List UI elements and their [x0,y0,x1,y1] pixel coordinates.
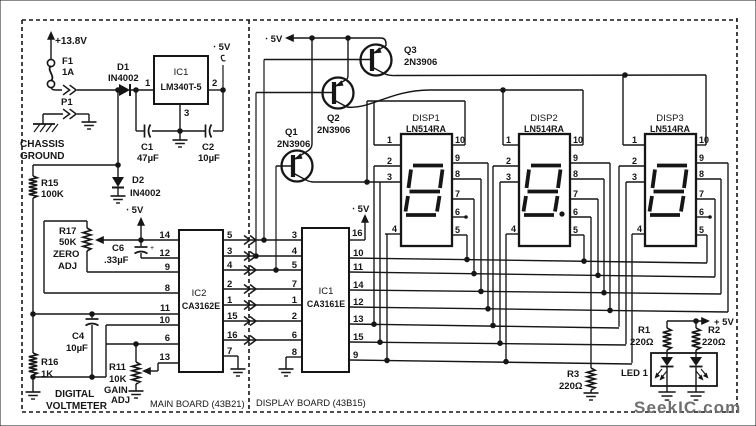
transistor Q3 2N3906 [264,45,437,76]
pin 8 (DISP3) [696,169,721,179]
svg-text:3: 3 [506,172,511,182]
wire (segment column) [618,166,620,327]
svg-text:IC1: IC1 [174,67,189,78]
wire (segment bus d / IC1 pin 12) [349,307,728,313]
pin 14 (IC1) [353,280,364,291]
wire [33,163,120,176]
connector (board link 4→5) [244,266,256,275]
svg-text:R1: R1 [638,325,651,336]
svg-text:6: 6 [165,333,170,344]
pin 15 (IC2) [227,311,238,322]
wire (segment bus f / IC1 pin 15) [349,340,626,346]
svg-text:220Ω: 220Ω [702,337,726,348]
svg-text:3: 3 [184,108,189,119]
pin 4 (DISP3) [632,224,645,234]
svg-text:GROUND: GROUND [20,151,64,162]
LED 1 (indicator pair) [621,353,717,386]
svg-text:2: 2 [506,156,511,166]
svg-text:15: 15 [227,311,238,322]
wire [152,130,205,132]
svg-text:1: 1 [632,135,637,145]
wire (DISP1 anode loop) [367,101,465,182]
display DISP2 LN514RA [519,113,570,246]
wire (IC2 pin 15 to IC1 pin 2) [223,320,302,322]
svg-text:11: 11 [353,262,364,273]
transistor Q2 2N3906 [256,78,354,137]
svg-text:6: 6 [573,207,578,217]
svg-text:1: 1 [227,295,233,306]
svg-text:R2: R2 [708,325,720,336]
transistor Q1 2N3906 [276,127,313,182]
svg-text:7: 7 [573,189,578,199]
wire (DISP3 anode drop) [623,75,706,145]
pin 7 (IC1) [292,279,297,290]
pin 5 (IC2) [227,230,233,241]
svg-text:9: 9 [455,153,460,163]
svg-text:2N3906: 2N3906 [404,57,437,68]
pin 3 (DISP1) [387,172,392,182]
wire (segment column) [706,235,708,263]
svg-text:16: 16 [352,228,363,239]
label DISPLAY BOARD [256,398,366,408]
pin 16 (IC1) [349,204,370,240]
pin 10 (DISP2) [570,135,583,145]
svg-text:C1: C1 [141,142,154,153]
svg-text:LED 1: LED 1 [621,368,649,379]
ground [173,131,188,147]
pin 7 (DISP2) [570,189,598,199]
svg-text:10µF: 10µF [66,343,88,354]
svg-text:LN514RA: LN514RA [650,124,691,134]
node +5V (LED supply) [667,317,734,328]
capacitor C4 10µF [66,314,99,379]
pin 10 (DISP1) [452,135,465,145]
svg-text:10: 10 [573,135,583,145]
resistor R3 220Ω [559,368,595,392]
svg-text:Q2: Q2 [327,113,340,124]
wire [667,366,696,392]
wire [44,221,179,293]
svg-text:ZERO: ZERO [53,249,79,260]
op-amp U1 IC2 CA3162E [179,230,223,372]
wire [142,363,179,375]
board divider (dashed) [248,20,250,412]
wire (Q1 emitter) [306,38,312,152]
regulator IC1 LM340T-5 [154,56,208,104]
svg-text:10: 10 [455,135,465,145]
wire (decimal point feed) [590,217,592,368]
svg-text:9: 9 [573,153,578,163]
svg-text:9: 9 [699,153,704,163]
chassis ground [20,114,65,162]
pin 1 (DISP1) [374,135,401,145]
svg-text:R17: R17 [59,226,76,237]
wire (segment column) [609,163,611,310]
wire (segment column) [492,166,494,326]
svg-text:12: 12 [159,248,170,259]
svg-text:LN514RA: LN514RA [406,124,447,134]
pin 5 (DISP2) [570,225,584,235]
svg-text:D1: D1 [117,62,130,73]
wire (IC2 pin 4 to IC1 pin 5) [223,269,302,271]
pin 4 (IC2) [227,260,233,271]
svg-text:VOLTMETER: VOLTMETER [46,401,108,412]
svg-text:9: 9 [353,350,358,361]
pin 3 (DISP2) [500,172,519,182]
wire (Q3 collector) [385,73,706,78]
svg-text:7: 7 [699,189,704,199]
wire (segment bus b / IC1 pin 11) [349,271,715,277]
ground [584,390,599,400]
svg-text:DISP1: DISP1 [412,113,439,124]
wire [87,251,179,272]
capacitor C6 .33µF [104,240,179,266]
pin 9 (DISP1) [452,153,488,163]
pin 11 (IC1) [353,262,364,273]
display DISP1 LN514RA [401,113,452,246]
svg-text:CA3161E: CA3161E [307,299,345,309]
wire (IC2 pin 3 to IC1 pin 4) [223,255,302,257]
svg-text:12: 12 [353,297,364,308]
svg-text:8: 8 [699,169,704,179]
svg-text:5: 5 [573,225,578,235]
wire (Q2 collector) [347,88,583,108]
connector (board link 1→1) [244,301,256,310]
svg-text:IN4002: IN4002 [108,73,139,84]
svg-text:6: 6 [292,330,297,341]
pin 3 (IC1) [178,104,190,133]
svg-text:4: 4 [227,260,233,271]
svg-text:13: 13 [353,314,364,325]
svg-text:10µF: 10µF [198,153,220,164]
ground [111,196,126,203]
pin 5 (DISP3) [696,225,707,235]
svg-text:D2: D2 [132,175,144,186]
pin 2 (IC1) [208,78,225,92]
potentiometer R11 10K GAIN ADJ [104,344,140,406]
svg-text:‧ 5V: ‧ 5V [352,204,370,215]
svg-text:4: 4 [292,246,298,257]
wire [31,325,179,379]
connector P1 (lower) [43,109,89,122]
pin 9 (DISP3) [696,153,728,163]
svg-text:R3: R3 [567,369,579,380]
svg-text:13: 13 [159,352,170,363]
pin 6 (IC1) [292,330,297,341]
svg-text:DISP3: DISP3 [656,113,683,124]
svg-text:8: 8 [165,283,170,294]
connector P1 (upper) [61,85,76,108]
wire (segment column) [603,179,605,293]
connector (board link 16→6) [244,336,256,345]
svg-text:14: 14 [353,280,364,291]
svg-text:IN4002: IN4002 [130,188,161,199]
svg-text:C6: C6 [112,243,124,254]
svg-text:IC2: IC2 [192,288,207,299]
pin 7 (DISP1) [452,189,474,199]
wire (segment column) [714,199,716,277]
wire (segment column) [466,235,468,260]
svg-text:C2: C2 [202,142,214,153]
wire [222,90,224,131]
pin 1 (IC2) [227,295,233,306]
svg-text:Q3: Q3 [404,45,417,56]
wire (Q2 base feed) [254,93,259,259]
pin 5 (IC1) [292,260,298,271]
resistor R2 220Ω [692,321,726,357]
connector (board link 15→2) [244,317,256,326]
pin 12 (IC2) [159,248,170,259]
pin 5 (DISP1) [452,225,467,235]
watermark SeekIC.com [634,398,741,417]
node +5V (display board) [265,34,386,46]
svg-text:CA3162E: CA3162E [182,301,220,311]
ground [26,392,41,399]
svg-text:8: 8 [455,169,460,179]
ground [658,392,675,400]
svg-text:47µF: 47µF [137,153,159,164]
capacitor C1 47µF [137,125,159,165]
pin 9 (DISP2) [570,153,610,163]
svg-text:MAIN BOARD (43B21): MAIN BOARD (43B21) [150,399,245,409]
svg-text:9: 9 [165,262,170,273]
wire (segment column) [487,163,489,309]
node +13.8V [47,31,87,59]
svg-text:10: 10 [159,315,170,326]
svg-text:LM340T-5: LM340T-5 [160,82,201,92]
svg-text:4: 4 [637,224,642,234]
svg-text:3: 3 [292,230,297,241]
svg-text:R16: R16 [41,357,58,368]
wire (DISP2 anode drop) [503,90,583,145]
pin 2 (DISP2) [493,156,519,166]
wire (segment column) [379,182,381,342]
ground [231,369,246,376]
resistor R16 1K [29,353,59,380]
display DISP3 LN514RA [645,113,696,246]
svg-text:6: 6 [455,207,460,217]
connector (board link 5→3) [244,236,256,245]
label DIGITAL VOLTMETER [46,389,108,412]
pin 10 (IC2) [159,315,170,326]
svg-text:2N3906: 2N3906 [317,125,350,136]
svg-text:‧ 5V: ‧ 5V [126,205,144,216]
svg-text:100K: 100K [41,189,64,200]
pin 13 (IC1) [353,314,364,325]
pin 13 (IC2) [159,352,170,363]
wire [77,89,117,91]
wire (IC2 pin 2 to IC1 pin 7) [223,288,302,290]
pin 7 (DISP3) [696,189,715,199]
wire [131,88,154,93]
pin 3 (IC1) [292,230,297,241]
svg-text:1A: 1A [62,67,74,78]
wire (segment column) [473,199,475,274]
pin 11 (IC2) [160,303,171,314]
node D2 tap [116,88,121,93]
wire [106,342,179,347]
diode D2 1N4002 [112,90,161,199]
wire (segment bus e / IC1 pin 13) [349,322,619,328]
wire [31,198,36,353]
svg-text:+: + [150,245,154,252]
svg-text:CHASSIS: CHASSIS [20,139,65,150]
svg-text:DIGITAL: DIGITAL [55,389,94,400]
svg-text:50K: 50K [59,237,77,248]
svg-text:F1: F1 [62,56,74,67]
svg-text:1: 1 [292,295,298,306]
svg-text:3: 3 [387,172,392,182]
svg-text:2: 2 [212,78,217,89]
svg-text:10: 10 [699,135,709,145]
pin 1 (DISP2) [503,135,519,145]
wire (segment column) [499,182,501,343]
svg-text:R11: R11 [109,362,127,373]
fuse F1 1A [47,56,74,88]
svg-text:5: 5 [292,260,298,271]
potentiometer R17 50K ZERO ADJ [53,226,91,272]
svg-text:7: 7 [455,189,460,199]
pin 9 (IC2) [165,262,170,273]
svg-text:1: 1 [387,135,392,145]
svg-text:5: 5 [699,225,704,235]
svg-text:4: 4 [511,224,516,234]
wire [136,90,144,131]
pin 10 (DISP3) [696,135,709,145]
wire (Q1 collector) [306,180,401,185]
svg-text:DISP2: DISP2 [530,113,557,124]
pin 9 (IC1) [353,350,358,361]
svg-text:3: 3 [632,172,637,182]
wire (IC2 pin 1 to IC1 pin 1) [223,304,302,306]
pin 4 (IC1) [292,246,298,257]
pin 8 (IC2) [165,283,170,294]
pin 8 (IC1) [286,347,302,369]
wire (Q1 base feed) [274,166,279,272]
svg-text:‧ 5V: ‧ 5V [265,34,283,45]
wire [32,375,34,392]
svg-text:LN514RA: LN514RA [524,124,565,134]
svg-text:5: 5 [455,225,460,235]
svg-text:2: 2 [227,279,232,290]
svg-text:3: 3 [227,246,232,257]
svg-text:C4: C4 [72,331,85,342]
label MAIN BOARD [150,399,245,409]
svg-text:1K: 1K [41,369,53,380]
svg-text:+13.8V: +13.8V [55,36,87,47]
svg-text:DISPLAY BOARD (43B15): DISPLAY BOARD (43B15) [256,398,366,408]
pin 6 (DISP2) [570,207,591,217]
ground [129,391,144,398]
svg-text:16: 16 [227,330,238,341]
pin 6 (IC2) [165,333,170,344]
pin 16 (IC2) [227,330,238,341]
pin 4 (DISP2) [506,224,519,234]
svg-text:2: 2 [387,156,392,166]
wire (segment column) [480,179,482,291]
pin 2 (IC2) [227,279,232,290]
svg-text:SeekIC.com: SeekIC.com [634,398,741,417]
wire (segment column) [505,234,507,362]
wire (segment column) [631,234,633,363]
op-amp U2 IC1 CA3161E [302,228,349,372]
svg-text:ADJ: ADJ [58,261,77,272]
connector (board link 2→7) [244,285,256,294]
svg-text:8: 8 [573,169,578,179]
pin 2 (DISP3) [619,156,645,166]
pin 8 (DISP2) [570,169,604,179]
svg-text:ADJ: ADJ [111,395,130,406]
resistor R15 100K [29,176,64,200]
svg-text:P1: P1 [61,97,73,108]
svg-text:Q1: Q1 [285,127,298,138]
svg-text:2: 2 [632,156,637,166]
svg-text:R15: R15 [41,178,59,189]
pin 1 (IC1 LM340T-5) [145,78,151,89]
ground [82,122,97,129]
connector (board link 3→4) [244,252,256,261]
wire (segment column) [597,199,599,275]
wire (segment column) [727,163,729,312]
svg-text:10: 10 [353,248,364,259]
wire (segment column) [625,182,627,344]
pin 14 (IC2) [159,230,170,241]
svg-text:7: 7 [292,279,297,290]
wire (IC2 pin 16 to IC1 pin 6) [223,339,302,341]
svg-text:6: 6 [699,207,704,217]
pin 1 (DISP3) [623,135,645,145]
pin 6 (DISP3) [696,207,711,218]
resistor R1 220Ω [630,321,671,357]
svg-text:220Ω: 220Ω [559,381,583,392]
pin 3 (DISP3) [626,172,645,182]
node +5V [126,205,145,240]
pin 2 (IC1) [292,311,297,322]
wire [213,130,223,132]
pin 10 (IC1) [353,248,364,259]
svg-text:2: 2 [292,311,297,322]
ground [279,369,294,376]
wire (Q3 emitter) [385,45,386,47]
wire (segment column) [720,179,722,294]
diode D1 1N4002 [108,62,139,96]
wire [95,236,179,244]
svg-text:‧ 5V: ‧ 5V [213,42,231,53]
pin 8 (DISP1) [452,169,481,179]
svg-text:4: 4 [392,224,397,234]
svg-text:IC1: IC1 [319,286,334,297]
svg-text:15: 15 [353,332,364,343]
ground [687,392,704,400]
pin 15 (IC1) [353,332,364,343]
svg-text:10K: 10K [109,374,127,385]
wire (segment bus a / IC1 pin 10) [349,257,707,263]
wire (Q3 base feed) [262,60,267,243]
pin 7 (IC2) [223,346,238,369]
svg-text:11: 11 [160,303,171,314]
pin 1 (IC1) [292,295,298,306]
svg-text:2N3906: 2N3906 [277,139,310,150]
node +5V (regulator output) [213,42,231,90]
svg-text:5: 5 [227,230,233,241]
wire (segment column) [386,234,388,360]
wire (segment bus g / IC1 pin 9) [349,358,632,364]
svg-text:1: 1 [506,135,511,145]
capacitor C2 10µF [198,125,220,165]
wire [51,87,62,90]
wire (IC2 pin 5 to IC1 pin 3) [223,239,302,241]
pin 6 (DISP1) [452,207,467,218]
